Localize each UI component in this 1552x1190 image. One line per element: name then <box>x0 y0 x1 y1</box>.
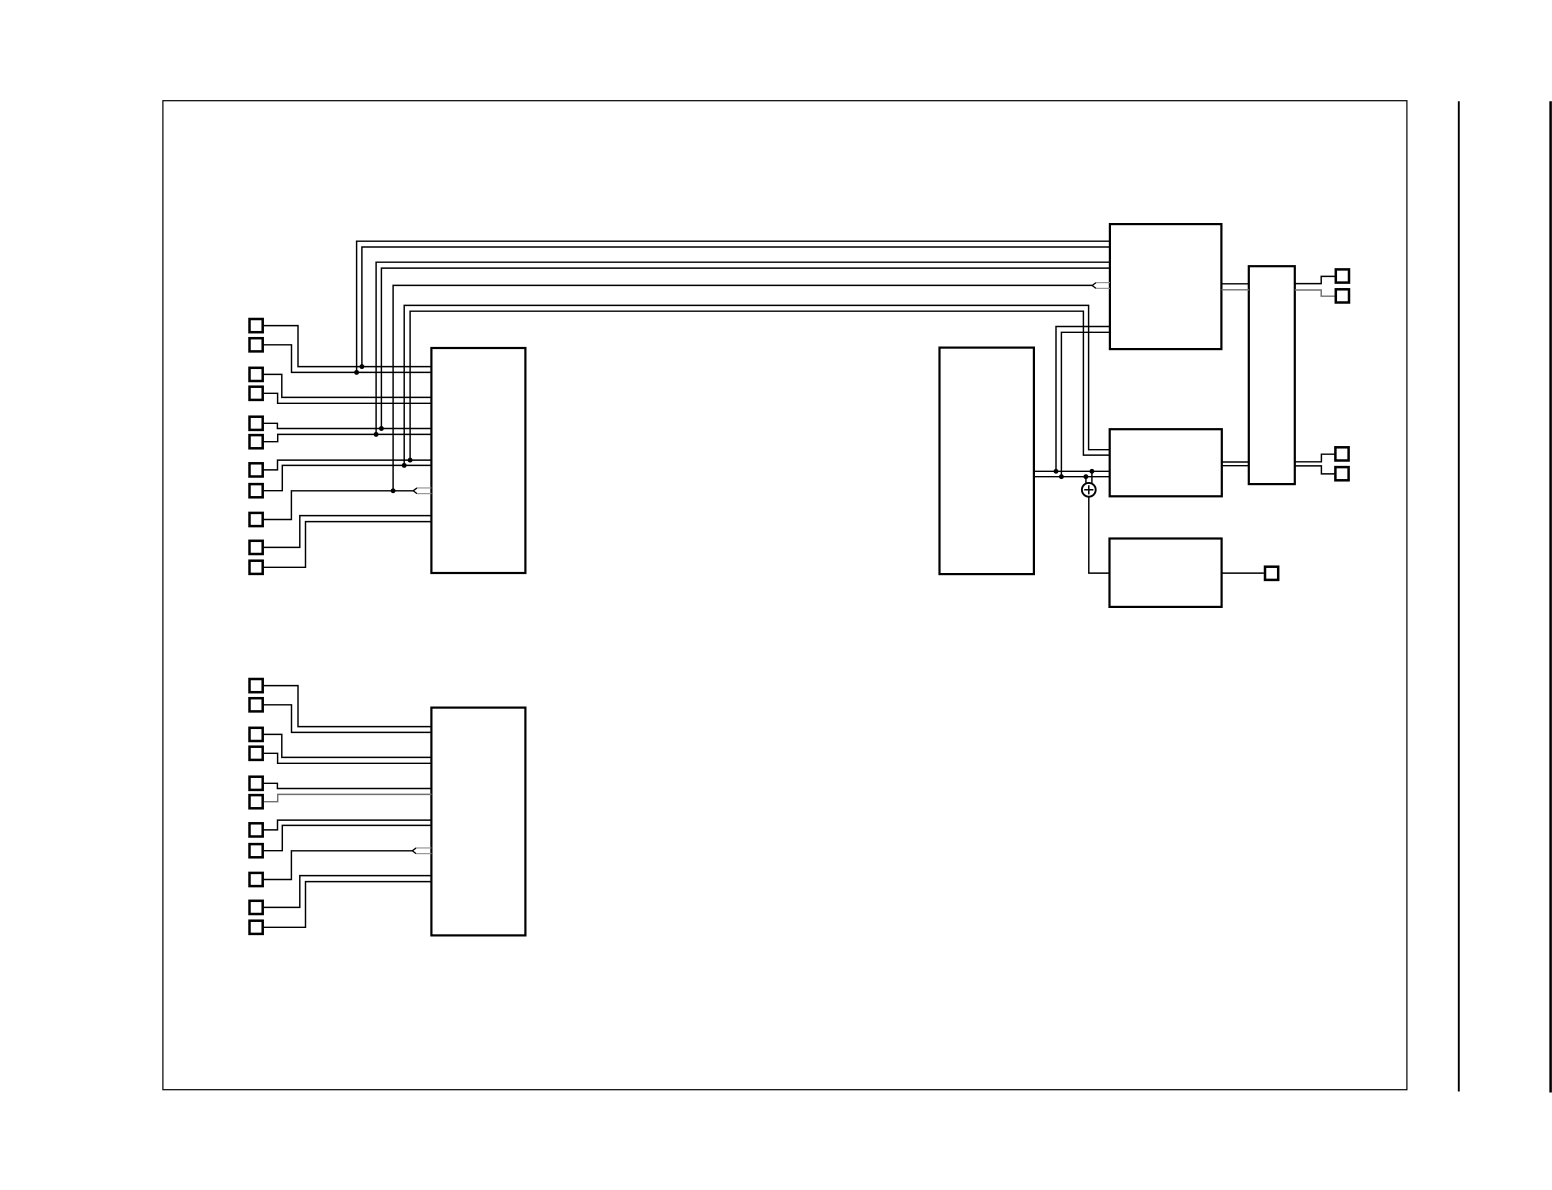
block B4 <box>1110 429 1222 496</box>
pad B <box>1336 289 1349 302</box>
pad P10 <box>250 541 263 554</box>
wire B2-B3 upper <box>1222 283 1250 285</box>
summing node <box>1082 483 1096 497</box>
pad Q7 <box>250 823 263 836</box>
flag into B2 <box>1092 283 1096 289</box>
junction fb upper <box>1054 469 1059 474</box>
wire P8 <box>264 465 432 490</box>
wire B3-padC <box>1295 454 1335 462</box>
wire P7 <box>264 460 432 470</box>
flag into B1 <box>413 488 417 494</box>
wire B4-B3 lower <box>1222 465 1249 467</box>
junction V5 <box>391 488 396 493</box>
junction V6 <box>402 463 407 468</box>
pad Q10 <box>250 901 263 914</box>
pad P11 <box>250 561 263 574</box>
junction adder b <box>1083 474 1088 479</box>
wire Q7 <box>264 820 432 830</box>
wire B5-padE <box>1222 572 1264 574</box>
wire Q3 <box>264 734 432 757</box>
pad P7 <box>250 463 263 476</box>
block B2 <box>1110 224 1222 349</box>
pad Q1 <box>250 679 263 692</box>
wire B3-padD <box>1295 466 1335 474</box>
wire P11 <box>264 522 432 568</box>
wire bus7 top <box>410 311 1110 460</box>
pad Q11 <box>250 921 263 934</box>
pad P3 <box>250 368 263 381</box>
junction V4 <box>379 426 384 431</box>
pad Q8 <box>250 844 263 857</box>
wire feedback lower <box>1061 332 1110 476</box>
pad Q3 <box>250 728 263 741</box>
wire Q9 <box>264 851 413 880</box>
pad Q6 <box>250 795 263 808</box>
wire bus1 top <box>357 241 1110 372</box>
wire bus2 top <box>362 247 1110 367</box>
wire B3-padA <box>1295 276 1335 283</box>
wire adder out <box>1089 497 1110 573</box>
wire Q4 <box>264 753 432 763</box>
pad Q9 <box>250 873 263 886</box>
pad P6 <box>250 435 263 448</box>
pad P1 <box>250 319 263 332</box>
wire B3-padB <box>1295 290 1335 296</box>
pad P5 <box>250 417 263 430</box>
pad C <box>1335 447 1348 460</box>
wire bus4 top <box>381 268 1110 428</box>
pad Q2 <box>250 698 263 711</box>
wire to adder b <box>1085 477 1087 485</box>
pad Q5 <box>250 777 263 790</box>
pad P9 <box>250 513 263 526</box>
wire B6 out lower <box>1034 476 1110 478</box>
junction V3 <box>374 432 379 437</box>
wire Q6 <box>264 794 432 801</box>
wire P4 <box>264 393 432 403</box>
wire P10 <box>264 516 432 548</box>
junction V7 <box>408 458 413 463</box>
plus sign <box>1084 485 1093 494</box>
block B5 <box>1110 539 1222 607</box>
wire B4-B3 upper <box>1222 461 1249 463</box>
pad P2 <box>250 338 263 351</box>
pad D <box>1335 467 1348 480</box>
wire Q5 <box>264 783 432 788</box>
wire P2 <box>264 345 432 373</box>
page rule 1 <box>1458 101 1460 1091</box>
wire Q10 <box>264 876 432 908</box>
block B3 <box>1249 266 1295 484</box>
wire P3 <box>264 374 432 397</box>
wire P6 <box>264 434 432 441</box>
wire B6 out upper <box>1034 470 1110 472</box>
wire Q8 <box>264 825 432 850</box>
wire feedback upper <box>1056 327 1110 472</box>
wire P9 <box>264 491 413 520</box>
wire Q11 <box>264 882 432 928</box>
junction V1 <box>354 370 359 375</box>
junction V2 <box>359 364 364 369</box>
page rule 2 <box>1549 101 1552 1092</box>
pad P8 <box>250 484 263 497</box>
junction adder a <box>1089 469 1094 474</box>
wire Q2 <box>264 705 432 733</box>
border frame <box>163 101 1407 1090</box>
wire to adder a <box>1091 471 1093 484</box>
flag into B7 <box>412 848 416 854</box>
pad P4 <box>250 387 263 400</box>
wire bus6 top <box>404 305 1110 465</box>
wire P1 <box>264 326 432 367</box>
wire bus3 top <box>376 262 1110 434</box>
block B7 <box>431 708 525 936</box>
pad A <box>1336 269 1349 282</box>
junction fb lower <box>1059 474 1064 479</box>
wire P5 <box>264 423 432 428</box>
wire Q1 <box>264 686 432 727</box>
block B1 <box>431 348 525 573</box>
pad E <box>1265 567 1278 580</box>
pad Q4 <box>250 747 263 760</box>
block B6 <box>940 348 1034 574</box>
wire bus5 top <box>393 285 1092 490</box>
wire B2-B3 lower <box>1222 289 1250 291</box>
